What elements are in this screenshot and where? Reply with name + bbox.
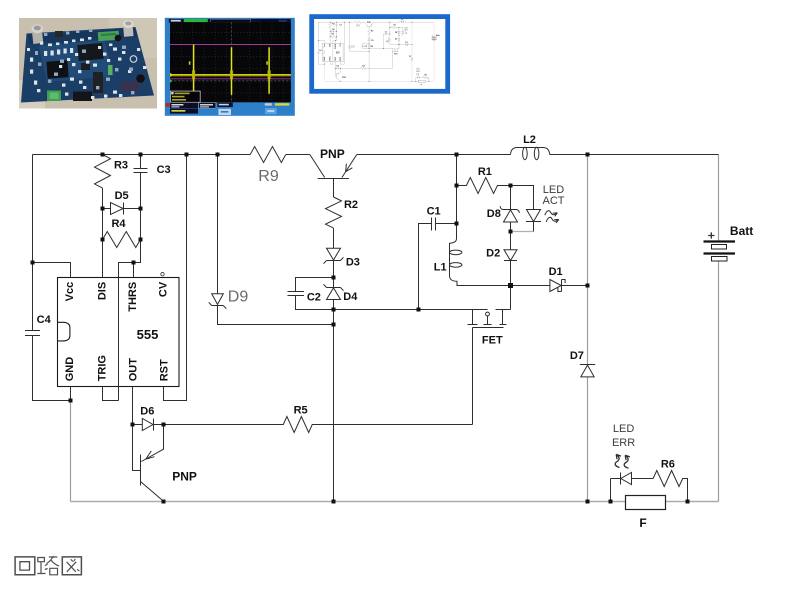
svg-text:TRIG: TRIG: [97, 355, 109, 381]
svg-text:ACT: ACT: [543, 195, 565, 207]
svg-text:L2: L2: [523, 134, 536, 146]
svg-text:RST: RST: [159, 359, 171, 381]
svg-text:GND: GND: [64, 357, 76, 382]
svg-text:D2: D2: [486, 248, 500, 260]
svg-text:LED: LED: [613, 423, 634, 435]
svg-text:PNP: PNP: [320, 147, 345, 161]
svg-text:C1: C1: [427, 205, 441, 217]
svg-text:R9: R9: [258, 168, 279, 185]
svg-text:R5: R5: [294, 405, 308, 417]
svg-text:R6: R6: [661, 458, 675, 470]
svg-text:C2: C2: [307, 292, 321, 304]
svg-text:D1: D1: [549, 266, 563, 278]
svg-text:FET: FET: [482, 335, 503, 347]
svg-text:D3: D3: [346, 257, 360, 269]
svg-text:CV: CV: [158, 281, 170, 297]
svg-text:PNP: PNP: [172, 470, 197, 484]
svg-text:R4: R4: [111, 218, 126, 230]
svg-text:LED: LED: [543, 184, 564, 196]
svg-text:OUT: OUT: [127, 358, 139, 382]
svg-text:R2: R2: [344, 199, 358, 211]
svg-text:C3: C3: [157, 164, 171, 176]
svg-text:D6: D6: [140, 405, 154, 417]
svg-text:Batt: Batt: [730, 224, 753, 238]
svg-text:ERR: ERR: [612, 437, 635, 449]
svg-text:D7: D7: [570, 350, 584, 362]
svg-text:L1: L1: [434, 261, 447, 273]
svg-text:THRS: THRS: [127, 282, 139, 312]
svg-text:555: 555: [137, 327, 159, 342]
svg-text:F: F: [639, 516, 646, 530]
svg-text:D8: D8: [487, 208, 501, 220]
svg-text:C4: C4: [37, 314, 52, 326]
svg-text:R3: R3: [114, 160, 128, 172]
svg-text:D5: D5: [115, 190, 129, 202]
svg-text:D9: D9: [228, 289, 249, 306]
svg-text:D4: D4: [343, 291, 358, 303]
svg-text:DIS: DIS: [97, 282, 109, 300]
svg-text:Vcc: Vcc: [64, 282, 76, 302]
svg-text:R1: R1: [478, 166, 492, 178]
